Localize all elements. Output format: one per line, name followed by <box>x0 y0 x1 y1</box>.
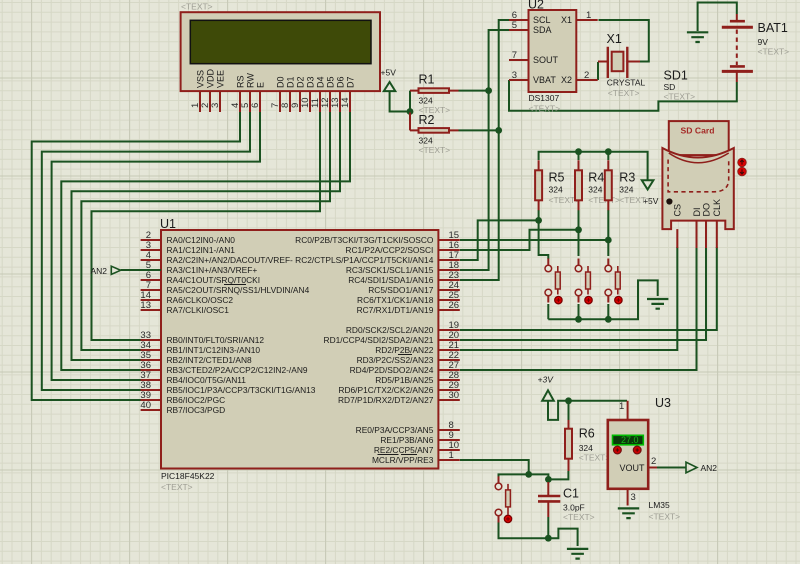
svg-text:U3: U3 <box>655 396 671 410</box>
svg-text:RD2/P2B/AN22: RD2/P2B/AN22 <box>375 345 434 355</box>
svg-text:<TEXT>: <TEXT> <box>619 195 651 205</box>
svg-text:9V: 9V <box>758 37 769 47</box>
svg-text:SD1: SD1 <box>664 69 688 83</box>
svg-text:LM35: LM35 <box>649 500 671 510</box>
svg-text:BAT1: BAT1 <box>758 21 788 35</box>
svg-text:7: 7 <box>512 50 517 61</box>
svg-text:RA6/CLKO/OSC2: RA6/CLKO/OSC2 <box>167 295 234 305</box>
svg-text:RC1/P2A/CCP2/SOSCI: RC1/P2A/CCP2/SOSCI <box>345 245 433 255</box>
svg-text:RD6/P1C/TX2/CK2/AN26: RD6/P1C/TX2/CK2/AN26 <box>338 385 433 395</box>
svg-text:1: 1 <box>586 10 591 21</box>
svg-text:1: 1 <box>619 401 624 412</box>
svg-text:R6: R6 <box>579 427 595 441</box>
svg-text:RC4/SDI1/SDA1/AN16: RC4/SDI1/SDA1/AN16 <box>348 275 434 285</box>
svg-text:324: 324 <box>579 443 593 453</box>
svg-text:RC0/P2B/T3CKI/T3G/T1CKI/SOSCO: RC0/P2B/T3CKI/T3G/T1CKI/SOSCO <box>295 235 434 245</box>
svg-text:RA4/C1OUT/SRQ/T0CKI: RA4/C1OUT/SRQ/T0CKI <box>167 275 261 285</box>
svg-text:SCL: SCL <box>533 15 551 25</box>
svg-text:PIC18F45K22: PIC18F45K22 <box>161 471 215 481</box>
svg-text:RB2/INT2/CTED1/AN8: RB2/INT2/CTED1/AN8 <box>167 355 253 365</box>
svg-text:U2: U2 <box>528 0 544 12</box>
svg-text:5: 5 <box>512 20 517 31</box>
svg-text:D0: D0 <box>275 76 285 88</box>
svg-text:<TEXT>: <TEXT> <box>758 47 790 57</box>
svg-text:RC7/RX1/DT1/AN19: RC7/RX1/DT1/AN19 <box>357 305 434 315</box>
svg-text:RD3/P2C/SS2/AN23: RD3/P2C/SS2/AN23 <box>357 355 434 365</box>
svg-text:VBAT: VBAT <box>533 75 556 85</box>
svg-text:D7: D7 <box>345 76 355 88</box>
svg-text:<TEXT>: <TEXT> <box>529 104 561 114</box>
svg-text:RA1/C12IN1-/AN1: RA1/C12IN1-/AN1 <box>167 245 236 255</box>
svg-text:3: 3 <box>512 70 517 81</box>
svg-text:2: 2 <box>584 70 589 81</box>
svg-text:SD Card: SD Card <box>681 126 715 136</box>
svg-text:RB1/INT1/C12IN3-/AN10: RB1/INT1/C12IN3-/AN10 <box>167 345 261 355</box>
svg-text:RE1/P3B/AN6: RE1/P3B/AN6 <box>380 435 433 445</box>
svg-text:R5: R5 <box>549 171 565 185</box>
svg-text:<TEXT>: <TEXT> <box>579 453 611 463</box>
svg-text:DO: DO <box>701 203 711 217</box>
svg-text:324: 324 <box>419 135 433 145</box>
svg-text:R1: R1 <box>419 73 435 87</box>
svg-text:<TEXT>: <TEXT> <box>649 512 681 522</box>
svg-text:SOUT: SOUT <box>533 55 559 65</box>
svg-text:<TEXT>: <TEXT> <box>161 482 193 492</box>
svg-text:3.0pF: 3.0pF <box>563 502 585 512</box>
svg-text:X1: X1 <box>607 32 622 46</box>
svg-text:RA5/C2OUT/SRNQ/SS1/HLVDIN/AN4: RA5/C2OUT/SRNQ/SS1/HLVDIN/AN4 <box>167 285 310 295</box>
svg-text:R4: R4 <box>588 171 604 185</box>
svg-text:RB6/IOC2/PGC: RB6/IOC2/PGC <box>167 395 226 405</box>
svg-text:VDD: VDD <box>205 68 215 88</box>
svg-text:+3V: +3V <box>538 375 555 385</box>
svg-text:D2: D2 <box>295 76 305 88</box>
svg-text:3: 3 <box>210 103 221 108</box>
svg-text:DS1307: DS1307 <box>529 93 560 103</box>
svg-text:CS: CS <box>673 204 683 217</box>
svg-text:6: 6 <box>250 103 261 108</box>
svg-text:R2: R2 <box>419 113 435 127</box>
svg-text:E: E <box>255 82 265 88</box>
svg-text:<TEXT>: <TEXT> <box>563 512 595 522</box>
svg-text:X2: X2 <box>561 75 572 85</box>
svg-text:RB3/CTED2/P2A/CCP2/C12IN2-/AN9: RB3/CTED2/P2A/CCP2/C12IN2-/AN9 <box>167 365 308 375</box>
svg-text:RA3/C1IN+/AN3/VREF+: RA3/C1IN+/AN3/VREF+ <box>167 265 258 275</box>
svg-text:RE0/P3A/CCP3/AN5: RE0/P3A/CCP3/AN5 <box>356 425 434 435</box>
svg-text:DI: DI <box>692 208 702 217</box>
svg-text:AN2: AN2 <box>701 463 718 473</box>
svg-text:RA0/C12IN0-/AN0: RA0/C12IN0-/AN0 <box>167 235 236 245</box>
svg-text:<TEXT>: <TEXT> <box>181 2 213 12</box>
svg-text:<TEXT>: <TEXT> <box>664 92 696 102</box>
svg-text:RD7/P1D/RX2/DT2/AN27: RD7/P1D/RX2/DT2/AN27 <box>338 395 434 405</box>
svg-text:RB7/IOC3/PGD: RB7/IOC3/PGD <box>167 405 226 415</box>
svg-text:CLK: CLK <box>712 199 722 217</box>
svg-text:MCLR/VPP/RE3: MCLR/VPP/RE3 <box>372 455 434 465</box>
svg-text:VSS: VSS <box>195 70 205 88</box>
svg-text:RA2/C2IN+/AN2/DACOUT/VREF-: RA2/C2IN+/AN2/DACOUT/VREF- <box>167 255 294 265</box>
svg-text:RW: RW <box>245 73 255 88</box>
svg-text:RD5/P1B/AN25: RD5/P1B/AN25 <box>375 375 434 385</box>
svg-text:D4: D4 <box>315 76 325 88</box>
svg-text:RC2/CTPLS/P1A/CCP1/T5CKI/AN14: RC2/CTPLS/P1A/CCP1/T5CKI/AN14 <box>295 255 434 265</box>
svg-text:VOUT: VOUT <box>620 463 646 473</box>
svg-text:VEE: VEE <box>215 70 225 88</box>
svg-text:+5V: +5V <box>381 68 397 78</box>
svg-text:AN2: AN2 <box>91 266 108 276</box>
svg-text:RD4/P2D/SDO2/AN24: RD4/P2D/SDO2/AN24 <box>350 365 434 375</box>
svg-text:324: 324 <box>619 185 633 195</box>
svg-text:RS: RS <box>235 75 245 88</box>
svg-text:324: 324 <box>549 185 563 195</box>
svg-text:C1: C1 <box>563 487 579 501</box>
svg-text:14: 14 <box>340 97 351 108</box>
svg-text:3: 3 <box>631 492 636 503</box>
svg-text:RC3/SCK1/SCL1/AN15: RC3/SCK1/SCL1/AN15 <box>346 265 434 275</box>
svg-text:RD0/SCK2/SCL2/AN20: RD0/SCK2/SCL2/AN20 <box>346 325 434 335</box>
svg-text:RB4/IOC0/T5G/AN11: RB4/IOC0/T5G/AN11 <box>167 375 247 385</box>
svg-text:RA7/CLKI/OSC1: RA7/CLKI/OSC1 <box>167 305 230 315</box>
svg-text:D6: D6 <box>335 76 345 88</box>
svg-text:U1: U1 <box>160 217 176 231</box>
svg-text:RC6/TX1/CK1/AN18: RC6/TX1/CK1/AN18 <box>357 295 434 305</box>
svg-text:27.0: 27.0 <box>621 435 639 445</box>
svg-text:RC5/SDO1/AN17: RC5/SDO1/AN17 <box>368 285 434 295</box>
svg-text:RB5/IOC1/P3A/CCP3/T3CKI/T1G/AN: RB5/IOC1/P3A/CCP3/T3CKI/T1G/AN13 <box>167 385 316 395</box>
svg-text:2: 2 <box>651 456 656 467</box>
svg-text:SDA: SDA <box>533 25 552 35</box>
svg-text:<TEXT>: <TEXT> <box>419 145 451 155</box>
svg-text:RE2/CCP5/AN7: RE2/CCP5/AN7 <box>374 445 434 455</box>
svg-text:RD1/CCP4/SDI2/SDA2/AN21: RD1/CCP4/SDI2/SDA2/AN21 <box>324 335 434 345</box>
svg-text:D3: D3 <box>305 76 315 88</box>
svg-text:D5: D5 <box>325 76 335 88</box>
svg-text:RB0/INT0/FLT0/SRI/AN12: RB0/INT0/FLT0/SRI/AN12 <box>167 335 265 345</box>
svg-text:D1: D1 <box>285 76 295 88</box>
svg-text:324: 324 <box>419 96 433 106</box>
svg-text:324: 324 <box>588 185 602 195</box>
svg-text:R3: R3 <box>619 171 635 185</box>
svg-text:X1: X1 <box>561 15 572 25</box>
svg-text:<TEXT>: <TEXT> <box>608 88 640 98</box>
svg-text:CRYSTAL: CRYSTAL <box>607 78 646 88</box>
svg-text:SD: SD <box>664 82 676 92</box>
